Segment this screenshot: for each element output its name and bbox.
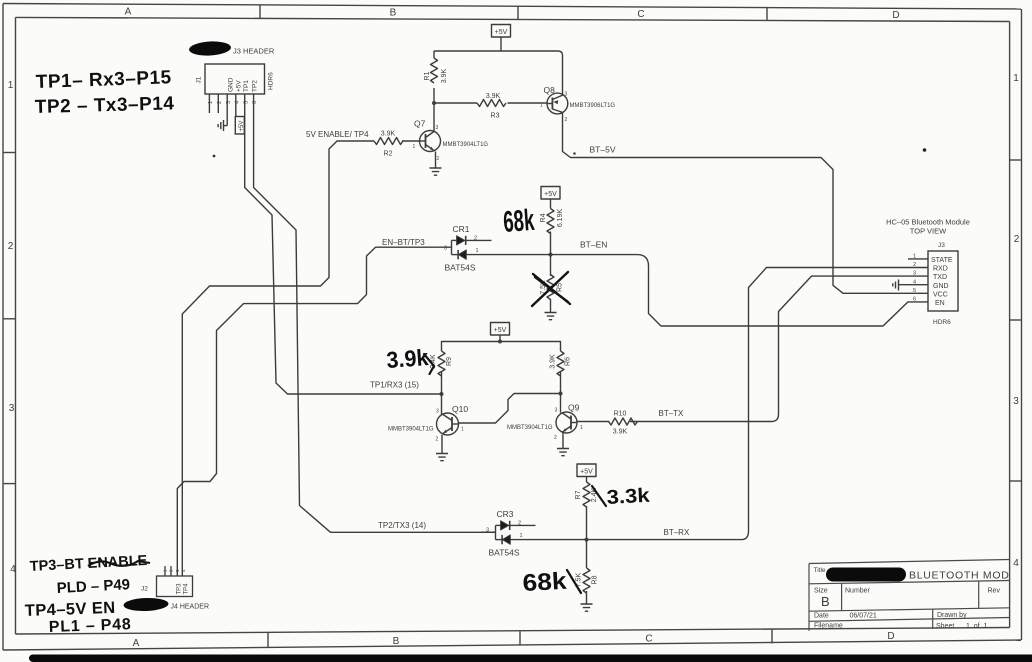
resistor R7 — [583, 482, 590, 507]
svg-text:6: 6 — [252, 101, 258, 104]
svg-text:2: 2 — [217, 101, 223, 104]
+5V symbol (RX section) — [577, 464, 596, 477]
resistor R8 — [583, 568, 590, 593]
svg-text:1: 1 — [208, 101, 214, 104]
svg-text:R3: R3 — [491, 113, 500, 120]
ground (Q9 emitter) — [557, 449, 569, 456]
wire +5V box3 to TX rail — [499, 335, 501, 342]
resistor R10 3.9K — [609, 418, 638, 425]
svg-text:TP3: TP3 — [177, 583, 183, 595]
wire top rail — [434, 51, 563, 94]
svg-text:GND: GND — [228, 77, 235, 92]
transistor Q7 MMBT3904LT1G (NPN) — [413, 119, 489, 163]
redaction blob (J3 HEADER) — [189, 40, 232, 56]
svg-text:+5V: +5V — [235, 80, 242, 92]
svg-text:Title: Title — [814, 567, 826, 574]
wire CR3 pin1 to BT-RX to J3 RXD pin2 — [510, 268, 928, 540]
ground (R8) — [581, 604, 593, 611]
wire Q7 emitter to ground — [435, 152, 437, 169]
+5V symbol (EN section) — [541, 187, 560, 200]
svg-text:2: 2 — [565, 117, 568, 123]
scan speck dots — [213, 155, 216, 158]
wire Q7 collector — [433, 103, 435, 131]
wire TP2/TX3 (14) from J1 pin6 to CR3 — [254, 94, 496, 532]
svg-text:BT–RX: BT–RX — [664, 528, 690, 537]
svg-text:1 of 1: 1 of 1 — [966, 623, 988, 630]
svg-text:3.3k: 3.3k — [606, 485, 651, 509]
ground (Q10 emitter) — [436, 454, 448, 461]
svg-text:B: B — [821, 594, 830, 609]
svg-text:R8: R8 — [592, 575, 599, 584]
svg-text:68k: 68k — [522, 568, 568, 597]
wire node A to R3 — [434, 102, 477, 104]
scan bottom black bar — [29, 655, 1032, 662]
svg-text:MMBT3904LT1G: MMBT3904LT1G — [507, 425, 553, 431]
svg-text:R4: R4 — [540, 213, 547, 222]
wire Q9 emitter to ground — [562, 433, 564, 448]
svg-text:C: C — [637, 9, 644, 20]
wire +5V to top rail — [500, 37, 502, 51]
svg-text:2: 2 — [554, 435, 557, 441]
svg-text:4: 4 — [913, 280, 916, 286]
svg-text:TP2 – Tx3–P14: TP2 – Tx3–P14 — [35, 93, 175, 118]
node B (R4/CR1/BT-EN junction) — [549, 253, 553, 257]
svg-text:C: C — [645, 634, 652, 645]
svg-text:06/07/21: 06/07/21 — [850, 612, 877, 619]
svg-text:TXD: TXD — [933, 274, 947, 281]
svg-text:J1: J1 — [196, 76, 203, 83]
svg-text:3: 3 — [436, 409, 439, 415]
strike over R9 value — [424, 354, 434, 374]
wire Q9 base to R10 — [577, 421, 610, 423]
svg-text:R10: R10 — [614, 411, 627, 418]
svg-text:3: 3 — [226, 101, 232, 104]
svg-text:HDR6: HDR6 — [268, 72, 275, 90]
wire EN-BT/TP3 long run to J4 pin 3 — [177, 247, 451, 576]
svg-text:R1: R1 — [424, 71, 431, 80]
svg-text:D: D — [887, 631, 894, 642]
wire Q10 emitter to ground — [441, 435, 443, 453]
svg-text:BT–5V: BT–5V — [590, 145, 616, 155]
svg-text:Number: Number — [845, 588, 871, 595]
svg-text:6: 6 — [913, 297, 916, 303]
svg-text:R5: R5 — [557, 283, 564, 292]
svg-text:TP2: TP2 — [251, 80, 258, 92]
svg-text:J3 HEADER: J3 HEADER — [233, 47, 275, 56]
wire +5V box4 to R7 — [586, 477, 588, 483]
header J2 (J4 HEADER) — [157, 566, 193, 597]
svg-text:R7: R7 — [575, 490, 582, 499]
wire Q8 collector to BT-5V then VCC pin5 — [563, 113, 929, 293]
svg-text:PLD – P49: PLD – P49 — [56, 576, 130, 597]
+5V symbol (TX section) — [491, 323, 510, 336]
svg-text:J3: J3 — [938, 242, 945, 249]
wire +5V box2 to R4 — [550, 199, 552, 209]
svg-text:R2: R2 — [384, 151, 393, 158]
node A (R1/R3/Q7 junction) — [432, 101, 436, 105]
svg-text:BT–EN: BT–EN — [580, 240, 607, 250]
svg-text:6.19K: 6.19K — [557, 209, 564, 228]
diode CR1 BAT54S — [444, 224, 492, 273]
svg-text:5: 5 — [243, 101, 249, 104]
svg-text:1: 1 — [8, 80, 14, 91]
svg-text:5: 5 — [913, 288, 916, 294]
svg-text:HDR6: HDR6 — [933, 319, 951, 326]
svg-text:TP1/RX3 (15): TP1/RX3 (15) — [370, 381, 419, 390]
svg-text:HC–05 Bluetooth Module: HC–05 Bluetooth Module — [886, 218, 970, 227]
wire J3 GND pin4 stub — [899, 284, 929, 286]
svg-text:GND: GND — [933, 283, 949, 290]
svg-text:BLUETOOTH MOD: BLUETOOTH MOD — [909, 570, 1010, 582]
redaction blob (title) — [826, 568, 906, 582]
svg-text:4: 4 — [234, 101, 240, 104]
wire R6 bottom to Q9 collector — [560, 372, 562, 413]
svg-text:1: 1 — [476, 248, 479, 254]
svg-text:2: 2 — [518, 521, 521, 527]
svg-text:4: 4 — [1013, 558, 1019, 569]
ground (R5) — [545, 313, 557, 320]
svg-text:+5V: +5V — [495, 29, 508, 36]
node C1 (+5V TX rail junction) — [498, 340, 502, 344]
svg-text:Filename: Filename — [814, 622, 843, 629]
svg-text:1: 1 — [520, 533, 523, 539]
svg-text:BAT54S: BAT54S — [489, 548, 520, 558]
svg-text:2: 2 — [474, 236, 477, 242]
wire R2 to 5V ENABLE/TP4 run down to J4 pin 4 — [182, 141, 374, 576]
svg-text:68k: 68k — [502, 204, 535, 239]
svg-text:A: A — [133, 638, 140, 649]
svg-text:2: 2 — [1014, 234, 1020, 245]
+5V symbol (top) — [492, 25, 511, 38]
svg-text:Q9: Q9 — [568, 403, 580, 413]
svg-text:TP1: TP1 — [243, 80, 250, 92]
svg-text:Date: Date — [814, 612, 829, 619]
svg-text:Q7: Q7 — [414, 119, 426, 129]
svg-text:CR1: CR1 — [453, 224, 470, 234]
resistor R3 3.9K — [477, 100, 506, 107]
svg-text:4: 4 — [10, 564, 16, 575]
svg-text:RXD: RXD — [933, 266, 948, 273]
svg-text:3: 3 — [486, 528, 489, 534]
svg-text:TP1– Rx3–P15: TP1– Rx3–P15 — [35, 67, 172, 93]
wire TP1/RX3 (15) from J1 pin5 — [245, 94, 442, 394]
svg-text:D: D — [892, 10, 899, 21]
svg-text:EN: EN — [935, 300, 945, 307]
svg-text:MMBT3906LT1G: MMBT3906LT1G — [570, 103, 616, 109]
wire Q7 base to R2 — [402, 140, 420, 142]
header J3 HC-05 Bluetooth Module — [893, 251, 958, 311]
wire TX rail — [442, 342, 561, 352]
wire R7 to node E — [586, 506, 588, 540]
wire R10 to BT-TX to J3 TXD pin3 — [630, 276, 928, 421]
svg-text:+5V: +5V — [580, 469, 593, 476]
svg-text:VCC: VCC — [933, 291, 948, 298]
svg-text:J4 HEADER: J4 HEADER — [171, 604, 210, 611]
svg-text:1: 1 — [1013, 73, 1019, 84]
svg-text:Q8: Q8 — [544, 85, 556, 95]
svg-text:3.9K: 3.9K — [381, 131, 396, 138]
svg-text:BAT54S: BAT54S — [445, 263, 476, 273]
wire R3 to Q8 base — [508, 102, 548, 104]
svg-text:J2: J2 — [141, 586, 148, 593]
wire Q10 base jog to node D — [459, 394, 561, 424]
svg-text:+5V: +5V — [544, 191, 557, 198]
svg-text:3.9K: 3.9K — [441, 68, 448, 83]
svg-text:Rev: Rev — [988, 588, 1001, 595]
redaction blob (J4 HEADER) — [123, 597, 168, 612]
svg-text:R9: R9 — [446, 357, 453, 366]
wire R8 to ground — [586, 540, 588, 604]
svg-text:TP4: TP4 — [184, 583, 190, 595]
diode CR3 BAT54S — [481, 509, 536, 558]
svg-text:BT–TX: BT–TX — [659, 409, 685, 418]
wire R9 bottom to Q10 collector — [441, 372, 443, 415]
resistor R1 3.9K — [431, 58, 438, 83]
node E (R7/R8/BT-RX junction) — [585, 538, 589, 542]
svg-text:3: 3 — [444, 246, 447, 252]
svg-text:2: 2 — [8, 241, 14, 252]
svg-text:3: 3 — [913, 271, 916, 277]
resistor R4 6.19K — [547, 209, 554, 234]
svg-text:2: 2 — [437, 156, 440, 162]
svg-text:PL1 – P48: PL1 – P48 — [49, 616, 132, 636]
svg-text:EN–BT/TP3: EN–BT/TP3 — [382, 238, 425, 247]
svg-text:B: B — [390, 8, 397, 19]
node C2 (R9/TP1/Q10 collector junction) — [440, 392, 444, 396]
svg-text:3.9K: 3.9K — [550, 354, 557, 369]
svg-text:3.9K: 3.9K — [486, 93, 501, 100]
handwritten X over R5 — [532, 272, 570, 306]
svg-text:B: B — [393, 636, 400, 647]
wire R5 to ground — [550, 255, 552, 312]
svg-text:MMBT3904LT1G: MMBT3904LT1G — [443, 142, 489, 148]
svg-text:3.9k: 3.9k — [386, 344, 430, 373]
wire CR1 pin1 to BT-EN to J3 EN pin6 — [466, 255, 928, 326]
strike over R8 value — [567, 570, 581, 593]
ground (Q7 emitter) — [430, 168, 442, 175]
resistor R9 — [438, 351, 445, 376]
wire R4 to node B — [550, 232, 552, 255]
svg-text:3: 3 — [565, 92, 568, 98]
svg-text:3.9K: 3.9K — [613, 429, 628, 436]
strike over R7 value — [592, 486, 606, 506]
svg-text:2: 2 — [436, 437, 439, 443]
svg-text:+5V: +5V — [494, 327, 507, 334]
svg-text:CR3: CR3 — [497, 509, 514, 519]
svg-text:3: 3 — [9, 403, 15, 414]
transistor Q9 MMBT3904LT1G (NPN, mirrored) — [507, 403, 583, 442]
transistor Q10 MMBT3904LT1G (NPN, mirrored) — [388, 404, 468, 443]
svg-text:R6: R6 — [565, 357, 572, 366]
svg-text:1: 1 — [913, 254, 916, 260]
resistor R2 3.9K — [374, 138, 403, 145]
svg-text:1: 1 — [413, 144, 416, 150]
wire J3 STATE pin1 stub — [908, 258, 928, 260]
svg-text:Sheet: Sheet — [936, 623, 954, 630]
svg-text:3: 3 — [555, 408, 558, 414]
svg-text:A: A — [125, 7, 132, 18]
svg-text:Drawn by: Drawn by — [937, 612, 967, 619]
svg-text:STATE: STATE — [931, 257, 953, 264]
svg-text:3: 3 — [1013, 396, 1019, 407]
svg-text:1: 1 — [540, 103, 543, 109]
svg-text:MMBT3904LT1G: MMBT3904LT1G — [388, 427, 434, 433]
node D (R6/Q9 collector junction) — [559, 392, 563, 396]
resistor R5 (crossed out) — [547, 275, 554, 300]
resistor R6 3.9K — [557, 351, 564, 376]
transistor Q8 MMBT3906LT1G (PNP) — [540, 85, 615, 123]
svg-text:TOP VIEW: TOP VIEW — [910, 227, 947, 236]
svg-text:1: 1 — [580, 425, 583, 431]
svg-text:5V ENABLE/ TP4: 5V ENABLE/ TP4 — [306, 130, 369, 139]
svg-text:2: 2 — [913, 262, 916, 268]
header J1 (J3 HEADER, HDR6) — [205, 64, 265, 134]
svg-text:Q10: Q10 — [452, 404, 468, 414]
wire R1 vertical x434 — [433, 51, 435, 58]
svg-text:+5V: +5V — [239, 121, 245, 132]
svg-text:3: 3 — [436, 125, 439, 131]
svg-text:1: 1 — [461, 427, 464, 433]
svg-text:TP2/TX3 (14): TP2/TX3 (14) — [378, 521, 426, 530]
